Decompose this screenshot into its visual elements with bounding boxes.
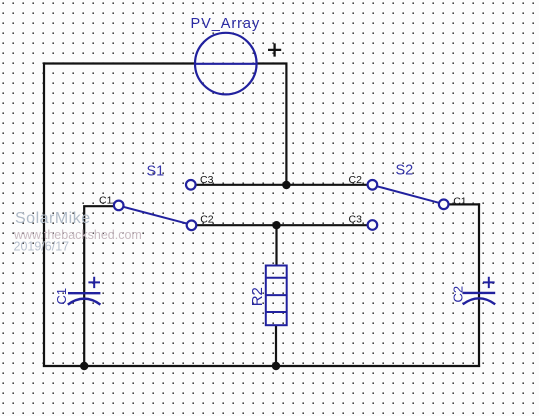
svg-text:C1: C1: [54, 288, 69, 305]
switch S1 contact C2 circle: [187, 221, 197, 231]
capacitor C1 curved negative plate: [68, 299, 101, 305]
capacitor C1 positive plate: [68, 292, 100, 294]
wire: switch S1 contact C3 to junction J1 to switch S2 contact C2: [196, 184, 368, 186]
label R2 (rotated): [249, 287, 266, 306]
switch S2 contact C3 circle: [368, 220, 378, 230]
label PV_Array: [191, 16, 261, 32]
switch S2 lever from C2 to C1: [377, 186, 439, 203]
svg-text:2019/6/17: 2019/6/17: [14, 240, 70, 254]
wire: switch S1 contact C1 left then down to capacitor C1: [84, 206, 114, 366]
junction J2 node dot: [272, 221, 280, 229]
svg-text:C3: C3: [200, 174, 214, 186]
wire: bottom rail: [43, 365, 480, 367]
capacitor C2 polarity +: [483, 277, 495, 288]
label S2 pin C2: [349, 174, 363, 186]
svg-text:S2: S2: [396, 163, 414, 179]
wire: left rail vertical: [43, 62, 45, 367]
svg-text:R2: R2: [249, 287, 266, 306]
svg-text:C2: C2: [450, 286, 465, 303]
label S2 pin C1: [453, 196, 467, 208]
capacitor C1 polarity +: [88, 277, 100, 288]
junction J1 node dot: [282, 181, 290, 189]
switch S1 contact C1 circle: [114, 201, 124, 211]
switch S1 contact C3 circle: [186, 180, 196, 190]
svg-text:C1: C1: [453, 196, 467, 208]
capacitor C2 positive plate: [463, 292, 496, 294]
label S1 pin C2: [200, 214, 214, 226]
capacitor C2 curved negative plate: [463, 298, 496, 304]
wire: right rail vertical upper segment down to capacitor C2: [478, 203, 480, 367]
svg-text:SolarMike: SolarMike: [15, 210, 91, 227]
wire: top rail left segment from left rail to PV circle: [44, 62, 196, 64]
label S1: [147, 163, 165, 179]
wire: switch S1 contact C2 to junction J2 to switch S2 contact C3: [196, 224, 367, 226]
svg-text:S1: S1: [147, 163, 165, 179]
watermark www.thebackshed.com: [13, 228, 142, 242]
label C1 (rotated): [54, 288, 69, 305]
wire: junction J2 down to resistor R2 top: [275, 225, 277, 266]
svg-text:C2: C2: [349, 174, 363, 186]
wire: resistor R2 bottom down to bottom rail: [275, 325, 277, 367]
PV source V1 PV_Array circle symbol: [195, 33, 257, 95]
wire: switch S2 contact C1 to right rail: [449, 203, 481, 205]
PV positive polarity mark +: [268, 43, 281, 56]
svg-text:C2: C2: [200, 214, 214, 226]
label S1 pin C1: [99, 195, 113, 207]
resistor R2 body: [266, 266, 287, 326]
switch S2 contact C2 circle: [368, 180, 378, 190]
junction J3 node dot at capacitor C1 bottom: [80, 362, 88, 370]
svg-text:PV_Array: PV_Array: [191, 16, 261, 32]
svg-text:C3: C3: [349, 214, 363, 226]
label S1 pin C3: [200, 174, 214, 186]
watermark SolarMike: [15, 210, 91, 227]
wire: vertical drop from PV positive to junction J1: [285, 63, 287, 186]
switch S1 lever from C1 to C2: [123, 207, 187, 224]
junction J4 node dot at resistor R2 bottom: [272, 362, 280, 370]
wire: top rail right segment from PV circle to right drop: [256, 62, 288, 64]
label S2 pin C3: [349, 214, 363, 226]
switch S2 contact C1 circle: [439, 200, 449, 210]
label S2: [396, 163, 414, 179]
svg-text:C1: C1: [99, 195, 113, 207]
label C2 (rotated): [450, 286, 465, 303]
watermark date 2019/6/17: [14, 240, 70, 254]
